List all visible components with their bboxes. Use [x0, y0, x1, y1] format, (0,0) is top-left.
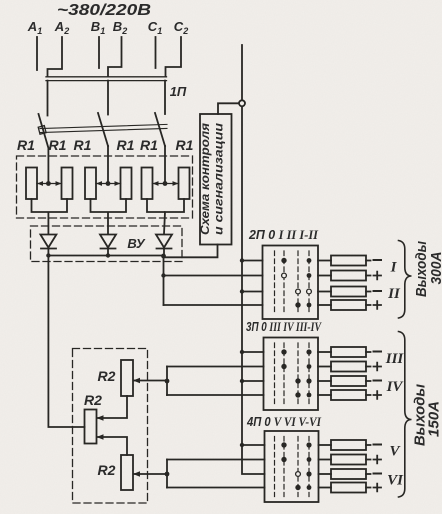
svg-text:и сигнализации: и сигнализации	[214, 123, 226, 235]
svg-text:ВУ: ВУ	[127, 236, 146, 251]
2P open contacts	[282, 273, 287, 278]
resistor R2 top	[121, 360, 133, 396]
wire loopB vertical	[166, 460, 168, 488]
node D1 out	[46, 253, 50, 257]
svg-text:150А: 150А	[427, 401, 442, 437]
2P contact dots	[281, 258, 311, 308]
node bus row3	[240, 289, 244, 293]
resistor R1a	[26, 168, 37, 200]
4P open contact	[296, 472, 301, 477]
3P output row 4	[318, 390, 381, 400]
brace outputs 150A	[399, 332, 412, 498]
node bus 3P row3	[240, 379, 244, 383]
svg-text:2П 0 I II I-II: 2П 0 I II I-II	[248, 227, 319, 242]
dashed box R2 bank	[73, 349, 148, 504]
wire B1	[98, 37, 100, 68]
wiper arrows pair 3	[153, 181, 179, 186]
switch 1P handle box	[38, 126, 46, 135]
3P contact dots	[281, 349, 311, 397]
wire rectifier output joining line	[48, 255, 164, 257]
wire A2	[48, 37, 63, 77]
switch block 3P	[264, 338, 319, 411]
wire pair 2 bottom U	[91, 199, 127, 234]
wire bus to 2P row1	[242, 260, 263, 262]
switch block 2P	[263, 246, 319, 320]
svg-text:VI: VI	[387, 473, 404, 489]
wire control box top to bus	[218, 103, 239, 114]
4P contact dots	[281, 442, 311, 490]
wire loopA to 3P row4	[167, 394, 264, 396]
svg-text:I: I	[390, 260, 398, 276]
4P dashed position columns	[275, 437, 310, 497]
svg-text:3П 0 III IV III-IV: 3П 0 III IV III-IV	[246, 319, 322, 334]
2P dashed position columns	[275, 251, 310, 314]
svg-text:Схема контроля: Схема контроля	[200, 123, 212, 235]
node VU row2	[161, 273, 165, 277]
brace outputs 300A	[399, 241, 412, 319]
wire C1	[155, 37, 157, 68]
svg-text:300А: 300А	[429, 252, 442, 285]
wire pole 2 lower	[107, 146, 109, 184]
switch 1P blade pole 2	[98, 113, 108, 146]
node bus 3P row1	[240, 350, 244, 354]
node bus 4P row1	[240, 443, 244, 447]
wire pole 1 upper	[47, 81, 49, 116]
node loopB tap	[165, 472, 170, 477]
switch 1P linkage bar (double line)	[40, 124, 167, 132]
wire pair 1 bottom U	[32, 199, 68, 234]
node loopA tap	[165, 379, 170, 384]
3P dashed position columns	[275, 343, 310, 405]
terminal circle on bus	[239, 100, 245, 106]
svg-text:II: II	[387, 286, 401, 302]
dashed box R1 resistor bank	[17, 156, 193, 218]
wire loopA to 3P row2	[167, 366, 264, 368]
wire loopB to 4P row2	[167, 459, 265, 461]
4P output row 3	[319, 469, 382, 479]
3P output row 2	[318, 362, 381, 372]
wire bus to 4P row1	[242, 444, 265, 446]
resistor R2 mid	[85, 410, 97, 444]
wire tap loopB to R2 bottom with arrow	[133, 471, 167, 477]
node bus row1	[240, 258, 244, 262]
dashed box VU rectifier	[31, 226, 183, 262]
3P output row 3	[318, 376, 381, 386]
switch 1P bus bar (double line)	[46, 77, 167, 81]
diode D2	[100, 235, 116, 256]
svg-text:III: III	[385, 351, 405, 367]
wire bus to 3P row3	[242, 380, 264, 382]
wire loopB to 4P row4	[167, 487, 265, 489]
svg-text:R2: R2	[98, 368, 116, 384]
svg-text:R2: R2	[84, 392, 102, 408]
svg-text:R2: R2	[98, 462, 116, 478]
wire control box bottom to rectifier	[164, 245, 218, 306]
svg-text:1П: 1П	[170, 84, 187, 99]
4P output row 4	[319, 483, 382, 493]
wiper arrows pair 1	[37, 181, 62, 186]
2P output row 2: wire, shunt, plus	[318, 271, 381, 281]
wire C2	[166, 37, 182, 77]
resistor R1e	[142, 168, 153, 200]
2P output row 3: wire, shunt, minus	[318, 287, 381, 297]
wire VU minus drop (left)	[48, 256, 84, 428]
switch block 4P	[265, 431, 319, 502]
svg-text:Выходы: Выходы	[414, 240, 430, 297]
svg-text:IV: IV	[386, 379, 405, 395]
wiper arrows pair 2	[96, 181, 121, 186]
control box (Schema kontrolya i signalizatsii)	[200, 114, 232, 245]
4P output row 1	[319, 440, 382, 450]
resistor R1b	[62, 168, 73, 200]
wire R2 bottom to R2 mid with arrow	[97, 434, 128, 455]
svg-text:R1: R1	[117, 137, 135, 153]
svg-text:R1: R1	[176, 137, 194, 153]
resistor R1f	[179, 168, 190, 200]
diode D1	[40, 235, 56, 256]
svg-text:R1: R1	[17, 137, 35, 153]
svg-text:4П 0 V VI V-VI: 4П 0 V VI V-VI	[246, 414, 322, 429]
wire bus to 2P row3	[242, 291, 263, 293]
svg-text:~380/220В: ~380/220В	[57, 2, 151, 19]
node D3 out	[161, 254, 166, 259]
diode D3	[156, 235, 172, 256]
3P output row 1	[318, 347, 381, 357]
resistor R1d	[121, 168, 132, 200]
2P output row 1: wire, shunt, minus	[318, 256, 381, 266]
svg-text:R1: R1	[49, 137, 67, 153]
wire pole 3 lower	[164, 146, 166, 184]
wire loopA vertical	[166, 367, 168, 396]
switch 1P blade pole 3	[155, 113, 165, 146]
svg-text:R1: R1	[74, 137, 92, 153]
wire pair 3 bottom U	[147, 199, 184, 234]
wire R2 top to R2 mid with arrow	[97, 396, 128, 421]
wire VU to 2P row2	[164, 275, 263, 277]
2P output row 4: wire, shunt, plus	[318, 300, 381, 310]
wire pole 2 upper	[107, 81, 109, 115]
svg-text:R1: R1	[140, 137, 158, 153]
wire B2	[108, 37, 122, 77]
switch 1P blade pole 1	[39, 114, 49, 148]
wire VU to 2P row4	[164, 304, 263, 306]
wire tap loopA to R2 top with arrow	[133, 378, 167, 384]
wire A1	[36, 37, 38, 70]
wire pole 1 lower	[47, 148, 49, 184]
main dc bus	[242, 45, 265, 474]
4P output row 2	[319, 455, 382, 465]
resistor R2 bottom	[121, 455, 133, 490]
wire bus to 3P row1	[242, 351, 264, 353]
node D2 out	[106, 253, 110, 257]
wire pole 3 upper	[164, 81, 166, 114]
resistor R1c	[85, 168, 96, 200]
